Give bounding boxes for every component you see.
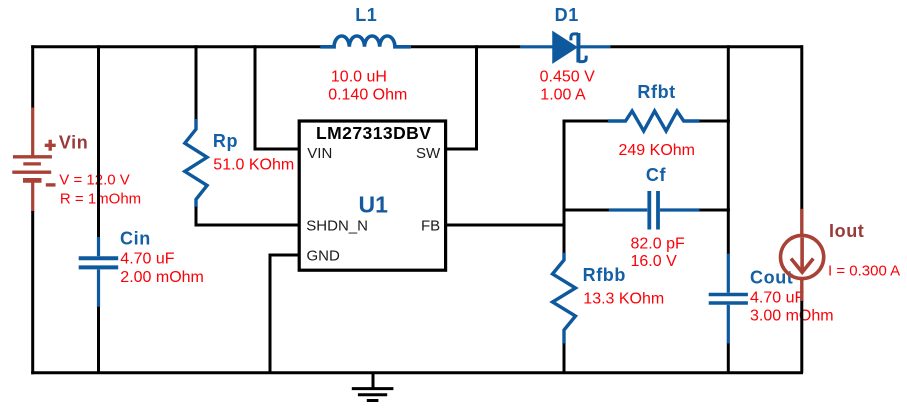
svg-text:10.0 uH: 10.0 uH — [331, 68, 387, 85]
wire Cin branch lower — [97, 307, 100, 373]
svg-text:Rfbt: Rfbt — [637, 82, 675, 102]
capacitor Cout — [709, 254, 748, 344]
U1 pin SHDN_N label — [306, 218, 368, 235]
Rp value label — [213, 157, 294, 174]
U1 pin VIN label — [307, 145, 332, 162]
diode D1 — [520, 32, 611, 63]
svg-text:51.0 KOhm: 51.0 KOhm — [213, 157, 294, 174]
U1 reference designator — [359, 192, 389, 218]
wire top rail left segment — [31, 45, 320, 48]
D1 name label — [555, 5, 579, 25]
Iout name label — [829, 221, 864, 241]
wire VIN pin branch — [255, 45, 299, 149]
resistor Rfbt — [608, 111, 700, 131]
wire Cf right lead — [700, 209, 730, 212]
current source Iout — [781, 209, 824, 301]
wire Vout inner branch upper — [727, 45, 730, 254]
svg-text:0.140 Ohm: 0.140 Ohm — [328, 86, 407, 103]
inductor L1 — [320, 36, 411, 47]
svg-text:Cin: Cin — [120, 229, 151, 249]
wire left rail upper — [31, 45, 34, 108]
svg-text:SHDN_N: SHDN_N — [306, 218, 368, 235]
L1 name label — [355, 5, 377, 25]
svg-text:LM27313DBV: LM27313DBV — [316, 123, 431, 143]
capacitor Cin — [79, 237, 119, 307]
resistor Rp — [185, 119, 207, 207]
wire bottom rail — [31, 371, 803, 374]
wire FB pin to node — [446, 224, 564, 227]
Cout name label — [750, 267, 793, 287]
wire Rp to SHDN_N pin — [196, 207, 299, 225]
Cin name label — [120, 229, 151, 249]
svg-text:0.450 V: 0.450 V — [540, 68, 595, 85]
wire top rail right segment — [611, 45, 804, 48]
U1 pin SW label — [416, 145, 441, 162]
Rp name label — [213, 131, 238, 151]
Iout value label — [828, 263, 900, 280]
wire left rail lower — [31, 211, 34, 374]
wire SW pin branch — [446, 45, 477, 149]
Cf value labels — [631, 236, 685, 270]
wire Rfbb lower — [563, 344, 566, 373]
U1 pin FB label — [421, 218, 440, 235]
wire GND pin branch — [270, 255, 299, 373]
svg-text:249 KOhm: 249 KOhm — [619, 142, 695, 159]
wire top rail middle segment — [411, 45, 521, 48]
svg-text:Iout: Iout — [829, 221, 864, 241]
svg-text:1.00 A: 1.00 A — [540, 86, 586, 103]
svg-text:16.0 V: 16.0 V — [631, 253, 678, 270]
svg-text:L1: L1 — [355, 5, 377, 25]
U1 pin GND label — [307, 248, 341, 265]
capacitor Cf — [609, 191, 700, 230]
Cin value labels — [120, 251, 204, 286]
svg-text:VIN: VIN — [307, 145, 332, 162]
Rfbt name label — [637, 82, 675, 102]
svg-text:SW: SW — [416, 145, 441, 162]
svg-text:D1: D1 — [555, 5, 579, 25]
Cf name label — [646, 165, 667, 185]
wire Rp branch upper — [195, 45, 198, 119]
svg-text:Vin: Vin — [59, 133, 88, 153]
svg-text:Cf: Cf — [646, 165, 667, 185]
ground — [352, 373, 394, 401]
svg-text:I = 0.300 A: I = 0.300 A — [828, 263, 900, 280]
Rfbb value label — [583, 290, 664, 307]
wire Cin branch upper — [97, 45, 100, 237]
wire Cf left lead — [563, 209, 610, 212]
D1 value labels — [540, 68, 595, 103]
svg-text:V = 12.0 V: V = 12.0 V — [59, 171, 129, 188]
wire Rfbt left lead — [563, 120, 609, 123]
svg-text:R = 1mOhm: R = 1mOhm — [60, 191, 141, 208]
svg-text:U1: U1 — [359, 192, 389, 218]
svg-text:Rfbb: Rfbb — [583, 265, 626, 285]
svg-text:13.3 KOhm: 13.3 KOhm — [583, 290, 664, 307]
wire Cout lower — [727, 344, 730, 373]
svg-text:4.70 uF: 4.70 uF — [120, 251, 174, 268]
svg-text:Rp: Rp — [213, 131, 238, 151]
Vin name label — [59, 133, 88, 153]
wire Rfbt right lead — [700, 120, 730, 123]
wire right rail upper — [800, 45, 803, 209]
L1 value labels — [328, 68, 407, 103]
resistor Rfbb — [553, 253, 576, 344]
voltage source Vin (battery) — [12, 108, 55, 212]
svg-text:4.70 uF: 4.70 uF — [750, 289, 804, 306]
svg-text:FB: FB — [421, 218, 440, 235]
U1 part number label — [316, 123, 431, 143]
wire FB node vertical — [563, 120, 566, 254]
op-amp U1 box — [299, 121, 445, 270]
wire right rail lower — [800, 301, 803, 373]
svg-text:GND: GND — [307, 248, 341, 265]
Vin value labels — [59, 171, 141, 207]
svg-text:2.00 mOhm: 2.00 mOhm — [120, 269, 204, 286]
Cout value labels — [750, 289, 834, 324]
svg-text:82.0 pF: 82.0 pF — [631, 236, 685, 253]
Rfbt value label — [619, 142, 695, 159]
svg-text:3.00 mOhm: 3.00 mOhm — [750, 307, 834, 324]
Rfbb name label — [583, 265, 626, 285]
